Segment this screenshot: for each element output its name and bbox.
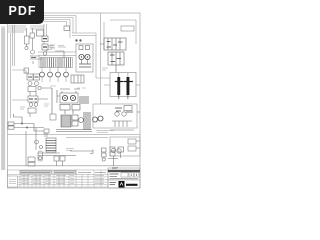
valve V2 <box>30 33 35 38</box>
svg-text:PDF: PDF <box>9 4 37 18</box>
wire <box>27 28 33 50</box>
pump cluster center <box>52 88 88 114</box>
pump P3 <box>28 82 32 86</box>
logo wordmark <box>126 184 138 186</box>
wire top bus <box>44 13 136 104</box>
pump P4 <box>35 82 39 86</box>
table left box <box>8 176 18 187</box>
gauge G1 <box>25 46 28 49</box>
wire <box>100 44 116 73</box>
lower-left valve cluster <box>26 128 76 166</box>
PDF badge <box>0 0 44 24</box>
right mid group <box>93 104 140 130</box>
right lower group <box>110 137 140 156</box>
accumulator A1 <box>38 151 43 161</box>
left port connectors <box>8 114 44 131</box>
center-bottom valve block <box>50 112 92 132</box>
title block header band <box>108 170 140 172</box>
tank stack <box>28 157 35 162</box>
gauge G2 <box>31 50 35 54</box>
cylinder group box <box>110 73 136 97</box>
table text dashes <box>21 171 106 173</box>
lower-center components <box>70 147 124 169</box>
valve V5 <box>37 26 70 58</box>
wire cylinder feeds <box>104 73 140 86</box>
wire long mid lines <box>8 135 140 166</box>
motor M2 <box>70 95 75 100</box>
valve V6 <box>27 74 33 80</box>
gauge pair center <box>93 116 104 122</box>
label texts <box>20 46 114 151</box>
gauge G3 <box>43 52 47 56</box>
parts table <box>8 170 109 187</box>
valve V1 <box>25 28 35 54</box>
accumulator stack U1 <box>75 39 93 72</box>
title block text <box>110 174 139 185</box>
left column chain <box>24 56 52 117</box>
border frame <box>8 13 141 188</box>
valve V8 <box>28 96 38 102</box>
wire comb under badge <box>9 25 43 33</box>
cylinder CYL2 <box>124 77 133 99</box>
left margin wire list <box>1 26 5 170</box>
solenoid S1 <box>64 26 70 31</box>
pump row <box>40 72 45 77</box>
ladder stack <box>46 138 56 152</box>
pump P7 <box>79 118 84 123</box>
title block <box>108 168 140 188</box>
cylinder CYL1 <box>115 77 124 99</box>
valve V3 <box>71 75 84 83</box>
motor M1 <box>62 95 67 100</box>
small valves <box>54 156 59 161</box>
gauge G4 <box>35 140 39 144</box>
small rect top right <box>121 26 134 31</box>
logo mark <box>119 181 125 188</box>
valve V7 <box>28 87 36 92</box>
wire left long verticals <box>11 24 47 118</box>
valve manifold row <box>38 47 76 82</box>
valve V4 <box>100 38 126 73</box>
